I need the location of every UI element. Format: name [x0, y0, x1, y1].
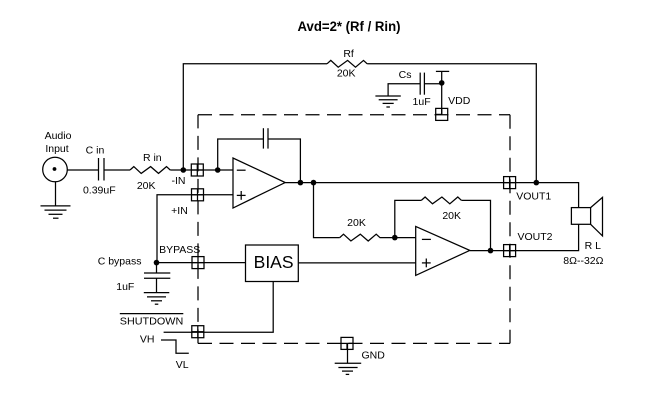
pin -IN	[172, 164, 204, 187]
wire R2 to op-amp2 minus input	[380, 237, 416, 239]
resistor Rin 20K	[130, 152, 170, 192]
svg-text:+IN: +IN	[171, 205, 188, 217]
wire op-amp2 output row to speaker bottom	[470, 224, 579, 250]
svg-text:-IN: -IN	[172, 175, 186, 187]
pin +IN	[171, 189, 203, 217]
speaker RL	[563, 197, 603, 267]
power rail VDD	[436, 71, 471, 114]
wire Rin to op-amp minus input	[170, 169, 233, 171]
svg-text:1uF: 1uF	[116, 281, 134, 293]
wire R3 down to op-amp2 output node	[462, 200, 491, 250]
junction op-amp1 output / C1	[298, 180, 304, 186]
block BIAS	[246, 245, 299, 282]
junction -IN cap tap	[215, 167, 221, 173]
wire connector to Cin	[67, 169, 98, 171]
wire feedback riser and top run	[183, 64, 327, 170]
svg-text:Input: Input	[45, 143, 68, 155]
svg-text:Cs: Cs	[399, 69, 412, 81]
op-amp U1A	[233, 158, 285, 208]
svg-text:R L: R L	[585, 240, 602, 252]
svg-text:BYPASS: BYPASS	[159, 244, 200, 256]
svg-text:20K: 20K	[442, 210, 461, 222]
op-amp U1B	[416, 226, 470, 275]
wire -IN riser to feedback cap C1	[218, 139, 264, 170]
resistor Rf 20K	[327, 48, 367, 80]
junction C bypass node	[154, 260, 160, 266]
svg-text:VL: VL	[176, 359, 189, 371]
capacitor Cs 1uF	[388, 69, 442, 108]
wire riser to upper 20K resistor	[395, 200, 422, 237]
svg-text:20K: 20K	[337, 68, 356, 80]
pin SHUTDOWN	[120, 314, 204, 338]
wire +IN row	[157, 195, 233, 263]
wire bypass row to BIAS	[157, 262, 246, 264]
junction -IN feedback tap	[181, 167, 187, 173]
resistor R2 20K (op-amp2 input)	[340, 217, 380, 241]
junction VOUT1 / Rf	[534, 180, 540, 186]
svg-text:8Ω--32Ω: 8Ω--32Ω	[563, 255, 603, 267]
ground (Cs)	[375, 96, 400, 107]
wire SHUTDOWN row to BIAS bottom	[164, 282, 274, 333]
capacitor Cin 0.39uF	[83, 144, 116, 196]
svg-text:Audio: Audio	[45, 130, 72, 142]
wire C1 to output node	[268, 139, 300, 183]
svg-text:GND: GND	[362, 349, 386, 361]
pin VDD	[436, 108, 448, 120]
svg-text:VDD: VDD	[448, 95, 471, 107]
IC package boundary (dashed)	[198, 115, 510, 344]
ground (Cbypass)	[144, 293, 170, 305]
svg-text:C in: C in	[86, 144, 105, 156]
junction Cs/VDD	[439, 80, 445, 86]
svg-text:VH: VH	[140, 334, 155, 346]
pin VOUT2	[504, 231, 553, 256]
wire output tap down to lower 20K resistor	[314, 183, 340, 238]
ground (audio input)	[41, 206, 71, 218]
svg-text:Rf: Rf	[343, 48, 354, 60]
svg-text:0.39uF: 0.39uF	[83, 184, 116, 196]
capacitor C1 (op-amp1 feedback)	[263, 128, 268, 148]
capacitor Cbypass 1uF	[98, 256, 171, 294]
wire GND pin to ground	[347, 343, 349, 363]
junction op-amp2 output / R3	[488, 248, 494, 254]
svg-text:VOUT2: VOUT2	[517, 231, 552, 243]
svg-text:R in: R in	[143, 152, 162, 164]
svg-text:Avd=2* (Rf / Rin): Avd=2* (Rf / Rin)	[298, 19, 401, 34]
svg-text:BIAS: BIAS	[254, 252, 294, 272]
svg-text:1uF: 1uF	[413, 96, 431, 108]
wire connector to ground	[55, 182, 57, 206]
junction R2 / R3 tap	[392, 235, 398, 241]
resistor R3 20K (op-amp2 feedback)	[421, 197, 461, 222]
ground (GND pin)	[335, 363, 362, 374]
wire op-amp1 output row to speaker top	[285, 183, 578, 208]
wire Rf to VOUT1 node	[367, 64, 536, 183]
waveform VH/VL	[140, 334, 189, 371]
svg-text:SHUTDOWN: SHUTDOWN	[120, 315, 184, 327]
wire BIAS to op-amp2 plus input	[298, 262, 415, 264]
svg-text:20K: 20K	[137, 180, 156, 192]
svg-text:20K: 20K	[347, 217, 366, 229]
wire Cin to Rin	[104, 169, 130, 171]
junction op-amp1 output / R2 tap	[311, 180, 317, 186]
svg-text:C bypass: C bypass	[98, 256, 142, 268]
svg-text:VOUT1: VOUT1	[516, 191, 551, 203]
pin VOUT1	[504, 177, 552, 203]
connector J1 Audio Input	[43, 130, 72, 182]
pin GND	[341, 337, 385, 361]
pin BYPASS	[159, 244, 204, 269]
